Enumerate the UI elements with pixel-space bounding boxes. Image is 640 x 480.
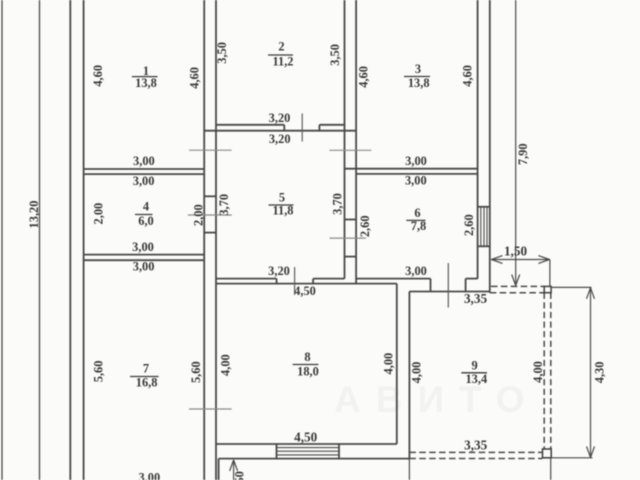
door marker 2/5 xyxy=(301,113,303,141)
room 6 label xyxy=(406,206,426,233)
wall left exterior inner xyxy=(83,0,85,480)
veranda corner square top xyxy=(544,286,551,292)
wall room4/7 bottom-line xyxy=(84,259,205,261)
extension line below veranda left xyxy=(408,459,410,480)
door cap 5/6 top xyxy=(345,219,357,221)
svg-text:11,8: 11,8 xyxy=(273,204,294,218)
extension line 1,50 right to square xyxy=(549,260,551,287)
wall center-right line a xyxy=(344,0,346,279)
svg-text:4,00: 4,00 xyxy=(410,362,424,384)
wall room5/8 bottom-line xyxy=(216,283,397,285)
svg-text:3,20: 3,20 xyxy=(269,132,291,146)
svg-text:5: 5 xyxy=(279,190,285,204)
door marker 5/8 xyxy=(294,267,296,295)
svg-text:2: 2 xyxy=(278,39,284,53)
door marker 4/5 xyxy=(188,214,232,216)
svg-text:2,00: 2,00 xyxy=(92,203,106,225)
wall room3/6 top-line xyxy=(345,168,478,170)
wall room8 bottom bottom-line xyxy=(219,458,410,460)
dimension line 1,50 with arrows xyxy=(491,259,550,261)
svg-text:3,00: 3,00 xyxy=(133,174,155,188)
wall room5/8 top-line xyxy=(216,278,277,280)
room 7 label xyxy=(130,362,159,390)
svg-text:4,60: 4,60 xyxy=(357,66,371,88)
door marker 7/8 xyxy=(189,408,232,410)
window bottom wall mullions xyxy=(277,447,340,449)
svg-text:4,30: 4,30 xyxy=(593,362,607,384)
veranda dashed right line inner xyxy=(550,293,552,449)
svg-text:9: 9 xyxy=(471,358,477,372)
svg-text:3,20: 3,20 xyxy=(268,264,290,278)
svg-text:7: 7 xyxy=(143,362,149,376)
window right wall cap top xyxy=(478,206,490,208)
svg-text:3,00: 3,00 xyxy=(405,264,427,278)
svg-text:8: 8 xyxy=(304,350,310,364)
extension line below bottom square xyxy=(550,458,552,480)
window bottom wall cap right xyxy=(338,444,340,459)
svg-text:3,00: 3,00 xyxy=(133,259,155,273)
wall center-right line b xyxy=(355,0,357,284)
svg-text:4,60: 4,60 xyxy=(188,67,202,89)
veranda corner square bottom xyxy=(543,449,552,458)
svg-text:3,50: 3,50 xyxy=(328,44,342,66)
window right wall cap bottom xyxy=(478,245,490,247)
door cap 2/5 right xyxy=(318,125,320,131)
door jog 6/9 right xyxy=(465,279,467,292)
wall left exterior outer xyxy=(69,0,71,480)
svg-text:4,00: 4,00 xyxy=(382,353,396,375)
svg-text:3,00: 3,00 xyxy=(405,173,427,187)
porch dimension arrow xyxy=(233,460,235,480)
door marker 1/5 xyxy=(189,149,232,151)
window bottom wall cap left xyxy=(276,444,278,459)
svg-text:3,50: 3,50 xyxy=(215,42,229,64)
room 2 label xyxy=(268,39,294,68)
svg-text:2,60: 2,60 xyxy=(358,215,372,237)
svg-text:1,50: 1,50 xyxy=(233,471,247,480)
svg-text:7,90: 7,90 xyxy=(516,143,530,165)
wall room9 left xyxy=(408,292,410,459)
room 8 label xyxy=(293,350,319,379)
svg-text:2,60: 2,60 xyxy=(462,214,476,236)
svg-text:11,2: 11,2 xyxy=(273,54,294,68)
svg-text:3,35: 3,35 xyxy=(464,291,487,306)
door cap 5/8 right xyxy=(312,279,314,284)
svg-text:6,0: 6,0 xyxy=(138,214,154,228)
porch wall left xyxy=(218,459,220,480)
room 5 label xyxy=(269,190,294,217)
svg-text:4,60: 4,60 xyxy=(461,65,475,87)
room 3 label xyxy=(404,62,430,90)
door threshold 6/9 xyxy=(409,291,489,293)
svg-text:3: 3 xyxy=(415,62,421,76)
door cap 4/5 bottom xyxy=(204,232,216,234)
door cap 2/5 left xyxy=(283,125,285,131)
door cap 5/8 left xyxy=(276,279,278,284)
wall room1/4 top-line xyxy=(84,168,205,170)
veranda dashed top line lower xyxy=(490,292,544,294)
door cap 5/6 bottom xyxy=(345,256,357,258)
wall right exterior inner xyxy=(477,0,479,279)
wall room4/7 top-line xyxy=(84,254,205,256)
svg-text:18,0: 18,0 xyxy=(297,365,319,379)
wall center-left line b xyxy=(215,0,217,480)
extension line square to 4,30 bottom xyxy=(551,457,592,459)
svg-text:1,50: 1,50 xyxy=(504,244,527,259)
svg-text:13,4: 13,4 xyxy=(465,372,487,386)
room 4 label xyxy=(135,200,154,228)
svg-text:4: 4 xyxy=(143,200,149,214)
wall right exterior outer xyxy=(489,0,491,293)
wall segment SE corner xyxy=(466,278,478,280)
door jog 6/9 left xyxy=(430,279,432,292)
svg-text:3,70: 3,70 xyxy=(217,194,231,216)
wall room1/4 bottom-line xyxy=(84,173,205,175)
veranda dashed top line upper xyxy=(491,285,544,287)
svg-text:4,00: 4,00 xyxy=(219,354,233,376)
wire dimension extension line far left xyxy=(1,0,3,480)
wire dimension line 13,20 xyxy=(39,0,41,480)
svg-text:6: 6 xyxy=(414,206,420,220)
veranda dashed bottom line lower xyxy=(409,458,542,460)
wall room8 bottom top-line xyxy=(216,443,397,445)
wall room3/6 bottom-line xyxy=(356,173,478,175)
room 9 label xyxy=(461,358,487,385)
svg-text:16,8: 16,8 xyxy=(136,376,158,390)
wall center-left line a xyxy=(203,0,205,480)
svg-text:13,20: 13,20 xyxy=(27,201,41,229)
svg-text:13,8: 13,8 xyxy=(135,76,157,90)
svg-text:3,00: 3,00 xyxy=(405,154,427,168)
door marker 6/9 xyxy=(447,263,449,308)
svg-text:3,70: 3,70 xyxy=(330,193,344,215)
wall room2 bottom top-line xyxy=(216,124,284,126)
dimension line 4,30 with arrows xyxy=(590,288,592,458)
extension line square to 4,30 top xyxy=(551,286,591,288)
room 1 label xyxy=(132,64,158,90)
veranda dashed right line outer xyxy=(543,293,545,449)
svg-text:3,00: 3,00 xyxy=(133,154,155,168)
svg-text:4,50: 4,50 xyxy=(294,429,317,444)
door marker 5/3 xyxy=(329,149,371,151)
door cap 4/5 top xyxy=(204,195,216,197)
wall room8 right xyxy=(396,284,398,444)
wall room2 bottom bottom-line xyxy=(204,130,356,132)
dimension line 7,90 with arrow xyxy=(515,0,517,285)
svg-text:АВИТО: АВИТО xyxy=(334,379,540,420)
svg-text:2,00: 2,00 xyxy=(191,204,205,226)
svg-text:5,60: 5,60 xyxy=(91,361,105,383)
window right wall mullions xyxy=(480,207,482,247)
svg-text:4,60: 4,60 xyxy=(91,65,105,87)
svg-text:3,00: 3,00 xyxy=(138,471,160,480)
svg-text:4,50: 4,50 xyxy=(294,284,316,298)
svg-text:4,00: 4,00 xyxy=(531,361,545,383)
svg-text:3,35: 3,35 xyxy=(464,438,487,453)
svg-text:7,8: 7,8 xyxy=(411,219,427,233)
door marker 5/6 xyxy=(330,237,367,239)
veranda dashed bottom line upper xyxy=(409,451,542,453)
svg-text:3,20: 3,20 xyxy=(269,111,291,125)
svg-text:13,8: 13,8 xyxy=(408,76,430,90)
svg-text:3,00: 3,00 xyxy=(132,240,154,254)
svg-text:5,60: 5,60 xyxy=(189,361,203,383)
